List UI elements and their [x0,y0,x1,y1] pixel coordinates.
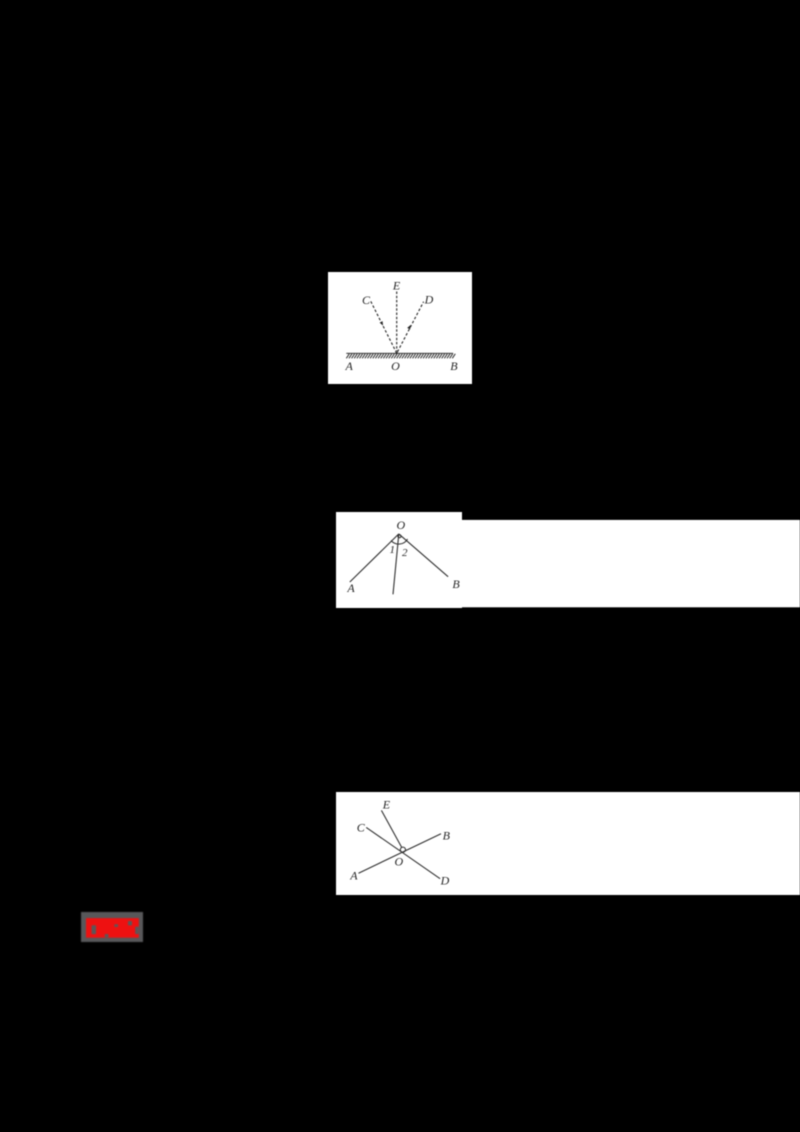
svg-text:A: A [345,359,354,373]
svg-text:B: B [452,576,460,590]
svg-text:A: A [346,580,355,594]
svg-text:2: 2 [402,546,408,558]
svg-text:E: E [392,279,401,293]
svg-text:C: C [362,293,371,307]
svg-text:C: C [357,820,366,834]
svg-text:O: O [394,855,403,869]
svg-text:B: B [450,359,458,373]
svg-text:D: D [440,874,450,888]
svg-text:1: 1 [389,544,395,556]
svg-text:O: O [391,359,400,373]
svg-text:E: E [382,797,391,811]
svg-text:D: D [424,293,434,307]
svg-text:B: B [443,829,451,843]
svg-text:O: O [396,518,405,532]
svg-text:A: A [349,869,358,883]
